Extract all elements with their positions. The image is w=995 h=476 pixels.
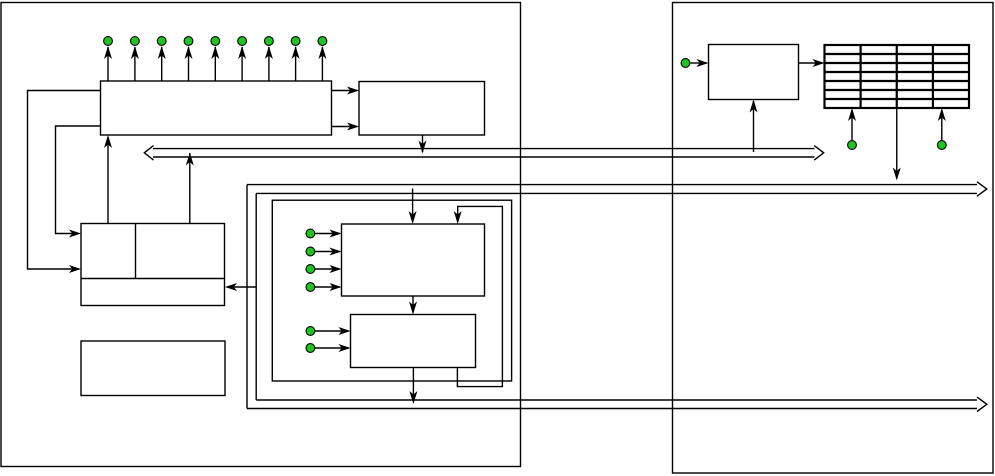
inner frame around middle group	[272, 200, 511, 381]
wire B2 bottom to bus1	[422, 135, 424, 152]
wires LEDs into B7 (2 stubs)	[315, 330, 349, 332]
bus1 bidirectional arrow (under B1/B2)	[144, 146, 823, 161]
bus2 U-shaped bus: left verticals	[247, 185, 256, 409]
LED row above B1 (9 green dots)	[104, 37, 113, 46]
block B5 (right panel box)	[709, 45, 799, 100]
arrowhead into B5 left	[697, 59, 709, 67]
wire B5 to grid	[799, 62, 823, 64]
wire grid centre down	[896, 108, 898, 179]
wire LED to grid bottom left	[851, 110, 853, 140]
arrowheads into B7 left (2)	[339, 327, 351, 335]
arrowhead into B6 top (feedback)	[454, 211, 462, 224]
arrowhead B3 to bus1	[186, 153, 194, 166]
display grid (7x4 matrix)	[825, 45, 970, 108]
block B1 (top-left wide register)	[101, 81, 332, 135]
LED inputs to B7	[306, 327, 315, 336]
arrowhead B2 down into bus1	[419, 141, 427, 154]
block B4 (plain box lower-left)	[81, 341, 225, 396]
block B2 (top, right of B1)	[359, 82, 485, 136]
arrowhead grid centre down to bus2	[893, 168, 901, 181]
wires B1 top to LEDs (9 stubs)	[107, 47, 109, 81]
wire feedback B7 to B6	[457, 206, 502, 386]
arrowheads at LEDs above B1	[104, 46, 112, 59]
arrowhead LED up into grid left	[848, 108, 856, 121]
wire B1 to B2 lower	[332, 126, 358, 128]
block B3 (compound box left)	[81, 224, 225, 306]
wire B3 top to B1 bottom	[107, 137, 109, 224]
arrowhead into B3 right	[225, 283, 237, 291]
bus2 U-shaped bus: top run	[247, 182, 987, 196]
wire bus1 to B5 bottom	[753, 101, 755, 152]
LED input to B5	[681, 59, 690, 68]
wire bus left vertical to B3 right	[227, 286, 256, 288]
wire B6 to B7	[412, 296, 414, 313]
wire bus2 into B6 top	[412, 189, 414, 223]
arrowhead into B1 bottom	[104, 135, 112, 148]
wire B1 left out A (to B3 lower input)	[28, 91, 101, 270]
arrowhead into B2 upper	[347, 87, 359, 95]
block B7 (middle group lower box)	[351, 315, 476, 368]
wire B7 down to bus3	[412, 368, 414, 402]
arrowheads into B6 left (4)	[330, 230, 342, 238]
panel frame left	[1, 3, 521, 467]
wires LEDs into B6 (4 stubs)	[315, 233, 340, 235]
arrowhead into B2 lower	[347, 123, 359, 131]
arrowhead LED up into grid right	[938, 108, 946, 121]
arrowhead into B7 top	[409, 302, 417, 315]
panel frame right	[673, 3, 994, 474]
arrowhead into B3 lower	[69, 265, 81, 273]
wire LED into B5	[691, 62, 707, 64]
wire LED to grid bottom right	[941, 110, 943, 140]
wire B3 top to bus1	[189, 153, 191, 224]
arrowhead B5 into grid	[813, 59, 825, 67]
wire B1 to B2 upper	[332, 90, 358, 92]
block B6 (middle group upper box)	[342, 224, 485, 296]
arrowhead into B6 top (from bus2)	[409, 211, 417, 224]
LED inputs to B6	[306, 229, 315, 238]
LEDs below grid	[848, 141, 857, 150]
arrowhead bus1 up into B5	[750, 100, 758, 113]
wire B1 left out B (to B3 upper input)	[56, 126, 101, 234]
arrowhead B7 into bus3	[409, 391, 417, 404]
arrowhead into B3 upper	[69, 230, 81, 238]
bus3 U-shaped bus: bottom run	[247, 397, 987, 411]
